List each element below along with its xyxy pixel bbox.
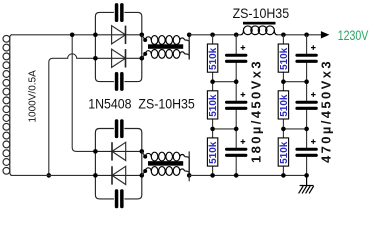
junction dots D2 row (93, 56, 98, 61)
capacitor C22 electrolytic (295, 101, 317, 104)
plus mark C12 (241, 92, 246, 97)
capacitor C4 (snubber across D4) (115, 189, 119, 208)
wire stubs resistor column R (212, 35, 214, 44)
white gap between plates C11 (235, 55, 237, 61)
wires L1 winding connections (142, 35, 145, 40)
capacitor C23 electrolytic (295, 148, 317, 151)
wire capacitor column C1 (235, 35, 237, 176)
choke L3 ZS-10H35 (filter) (241, 26, 278, 35)
capacitor C3 (snubber across D3) (115, 119, 119, 138)
plus mark C23 (311, 139, 316, 144)
capacitor C2 (snubber across D2) (115, 72, 119, 91)
svg-text:510k: 510k (208, 47, 219, 70)
junction dots R2/C2 mid rows (281, 79, 286, 84)
resistor R21 510k (278, 44, 288, 72)
svg-text:180µ/450Vx3: 180µ/450Vx3 (249, 59, 264, 163)
white gap between plates C22 (305, 102, 307, 108)
capacitor C1 (snubber across D1) (115, 3, 119, 22)
junction dots D4 row (93, 173, 98, 178)
capacitor C13 electrolytic (225, 148, 247, 151)
choke L2 ZS-10H35 (dual winding) (145, 152, 184, 175)
svg-text:470µ/450Vx3: 470µ/450Vx3 (319, 59, 334, 163)
junction dots D1 row (93, 33, 98, 38)
svg-text:ZS-10H35: ZS-10H35 (233, 5, 290, 21)
resistor R1 510k (207, 44, 217, 72)
junction dots bottom rail (210, 173, 215, 178)
wire tie rows R/C1 (213, 81, 237, 83)
resistor R3 510k (207, 138, 217, 166)
diode D3 1N5408 (95, 150, 141, 152)
white gap between plates C13 (235, 149, 237, 155)
wire ring of section (D3/D4) (95, 129, 114, 199)
wire tie rows R2/C2 (283, 81, 306, 83)
junction dots R/C1 mid rows (210, 79, 215, 84)
svg-text:510k: 510k (279, 47, 290, 70)
resistor R2 510k (207, 91, 217, 119)
junction dot node A (70, 33, 75, 38)
capacitor C12 electrolytic (225, 101, 247, 104)
capacitor C11 electrolytic (225, 54, 247, 57)
white gap between plates C12 (235, 102, 237, 108)
svg-text:1000V/0.5A: 1000V/0.5A (28, 70, 39, 123)
wire capacitor column C2 (306, 35, 308, 176)
capacitor C21 electrolytic (295, 54, 317, 57)
plus mark C21 (311, 45, 316, 50)
resistor R23 510k (278, 138, 288, 166)
wire rowB: from vert1 with hop over vert2 (49, 54, 96, 176)
wire rowA: vertical drop to lower bridge (node) (72, 35, 95, 152)
white gap between plates C21 (305, 55, 307, 61)
plus mark C11 (241, 45, 246, 50)
junction dot choke L1 output (187, 33, 192, 38)
junction dots D3 row (93, 149, 98, 154)
choke L1 ZS-10H35 (dual winding) (145, 36, 184, 59)
svg-text:1N5408 ZS-10H35: 1N5408 ZS-10H35 (88, 96, 195, 112)
wires L2 winding connections (142, 151, 145, 156)
core bar of L2 (148, 161, 183, 166)
svg-text:510k: 510k (279, 141, 290, 164)
wire rowD: coil bottom to lower bridge (11, 174, 95, 176)
plus mark C22 (311, 92, 316, 97)
junction dot choke L2 output (187, 173, 192, 178)
wire bottom rail (0V) (189, 174, 306, 176)
wire ring of section (D1/D2) (95, 12, 114, 81)
wire stubs resistor column R2 (282, 35, 284, 44)
diode D2 1N5408 (95, 57, 141, 59)
svg-text:1230V: 1230V (338, 27, 369, 43)
svg-text:510k: 510k (208, 94, 219, 117)
resistor R22 510k (278, 91, 288, 119)
diode D4 1N5408 (95, 174, 141, 176)
core bar of L3 (243, 22, 276, 25)
transformer T1 secondary winding (3, 35, 12, 176)
ground symbol (299, 175, 314, 193)
core bar of L1 (148, 44, 183, 49)
white gap between plates C23 (305, 149, 307, 155)
junction dot node B (coil bottom / vert1) (47, 173, 52, 178)
junction dots on top rail (210, 33, 215, 38)
svg-text:510k: 510k (279, 94, 290, 117)
output arrow (321, 31, 330, 38)
plus mark C13 (241, 139, 246, 144)
diode D1 1N5408 (95, 34, 141, 36)
wire rowA: coil top to bridge input (11, 34, 95, 36)
svg-text:510k: 510k (208, 141, 219, 164)
stub below L2 output (188, 175, 190, 181)
wire top rail (+) (189, 34, 241, 36)
